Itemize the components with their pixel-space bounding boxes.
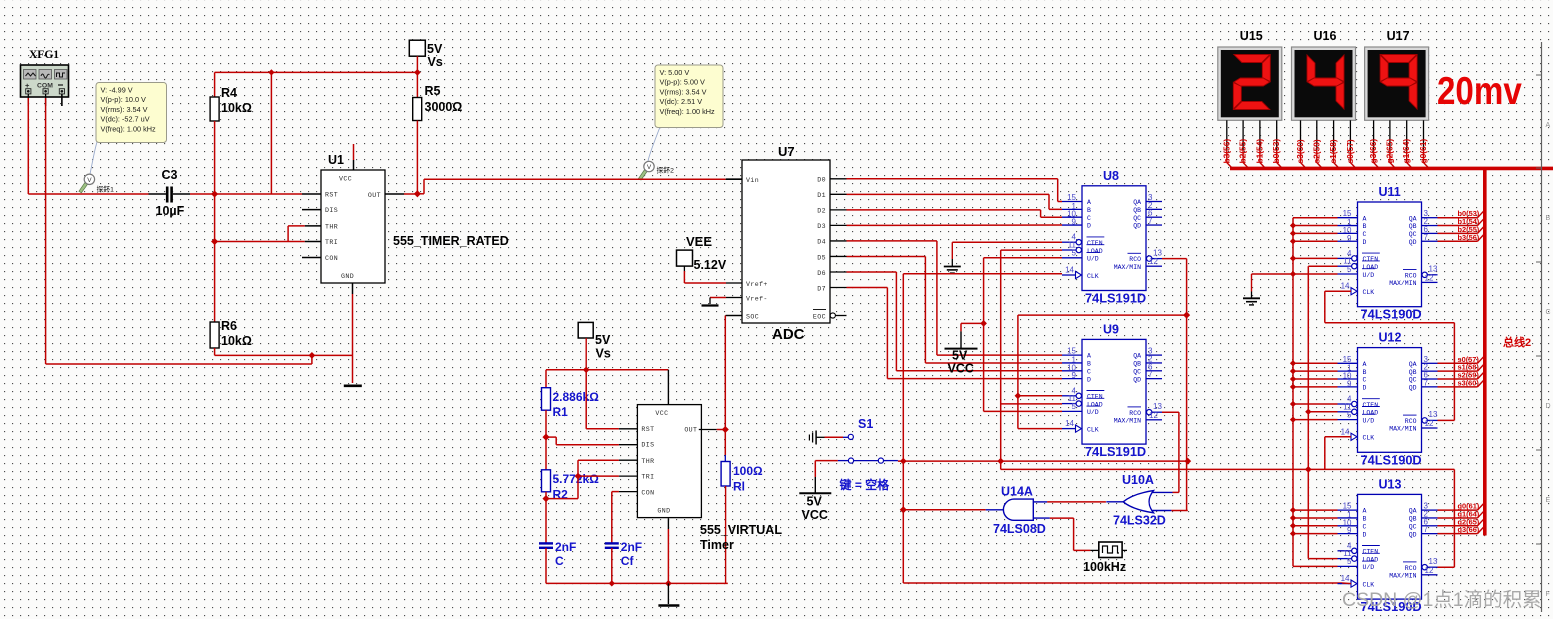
svg-text:C: C (1087, 215, 1091, 222)
svg-text:5V: 5V (952, 349, 968, 363)
svg-text:D7: D7 (817, 285, 826, 292)
svg-text:Vref+: Vref+ (746, 281, 768, 288)
svg-text:LOAD: LOAD (1363, 410, 1379, 417)
svg-text:B: B (1087, 207, 1091, 214)
svg-text:U16: U16 (1314, 29, 1337, 43)
svg-text:R4: R4 (221, 86, 237, 100)
svg-text:CSDN @1点1滴的积累: CSDN @1点1滴的积累 (1342, 589, 1542, 611)
svg-text:CLK: CLK (1087, 273, 1099, 280)
svg-text:MAX/MIN: MAX/MIN (1114, 417, 1141, 424)
svg-text:C3: C3 (162, 168, 178, 182)
svg-text:总线2: 总线2 (1503, 335, 1531, 349)
svg-text:RCO: RCO (1129, 410, 1141, 417)
svg-text:74LS32D: 74LS32D (1113, 514, 1166, 528)
svg-text:15: 15 (1343, 502, 1352, 511)
svg-text:VCC: VCC (655, 410, 668, 417)
svg-text:D1: D1 (817, 192, 826, 199)
svg-text:s2(59): s2(59) (1311, 139, 1321, 163)
svg-text:555_TIMER_RATED: 555_TIMER_RATED (393, 234, 509, 248)
svg-text:b1(54): b1(54) (1254, 139, 1264, 164)
svg-text:7: 7 (1148, 370, 1153, 379)
svg-text:10µF: 10µF (156, 204, 185, 218)
svg-text:5.12V: 5.12V (694, 258, 727, 272)
svg-text:R1: R1 (553, 405, 569, 419)
svg-text:CLK: CLK (1087, 426, 1099, 433)
svg-text:5: 5 (1347, 410, 1352, 419)
svg-text:7: 7 (1424, 378, 1429, 387)
svg-text:QA: QA (1133, 199, 1141, 206)
svg-text:MAX/MIN: MAX/MIN (1114, 264, 1141, 271)
svg-text:EOC: EOC (813, 314, 826, 321)
svg-text:U14A: U14A (1001, 485, 1033, 499)
svg-text:5.772kΩ: 5.772kΩ (553, 472, 600, 486)
svg-text:QA: QA (1409, 361, 1417, 368)
svg-text:100Ω: 100Ω (733, 464, 763, 478)
svg-text:A: A (1087, 199, 1091, 206)
svg-text:b0(53): b0(53) (1271, 139, 1281, 164)
svg-text:s1(58): s1(58) (1328, 139, 1338, 163)
svg-text:探鈈1: 探鈈1 (97, 185, 115, 194)
svg-text:A: A (1363, 361, 1367, 368)
svg-text:Rl: Rl (733, 480, 745, 494)
svg-text:74LS191D: 74LS191D (1085, 444, 1146, 459)
svg-text:14: 14 (1341, 427, 1350, 436)
svg-text:74LS191D: 74LS191D (1085, 291, 1146, 306)
svg-text:D: D (1087, 376, 1091, 383)
svg-text:10kΩ: 10kΩ (221, 334, 252, 348)
svg-text:13: 13 (1429, 410, 1438, 419)
svg-text:5V: 5V (595, 333, 611, 347)
svg-text:V: V (647, 164, 652, 171)
svg-text:GND: GND (657, 508, 670, 515)
svg-text:5: 5 (1072, 402, 1077, 411)
svg-text:V(rms): 3.54 V: V(rms): 3.54 V (101, 105, 148, 114)
svg-text:U8: U8 (1103, 169, 1119, 183)
svg-text:g1(64): g1(64) (1401, 139, 1411, 164)
svg-text:13: 13 (1153, 402, 1162, 411)
svg-text:15: 15 (1067, 193, 1076, 202)
svg-text:D: D (1363, 531, 1367, 538)
svg-text:D0: D0 (817, 177, 826, 184)
svg-text:CLK: CLK (1363, 581, 1375, 588)
svg-text:QC: QC (1409, 523, 1417, 530)
svg-text:9: 9 (1347, 234, 1352, 243)
svg-text:MAX/MIN: MAX/MIN (1389, 280, 1416, 287)
svg-text:U7: U7 (778, 144, 795, 159)
svg-text:13: 13 (1153, 248, 1162, 257)
svg-text:QD: QD (1409, 531, 1417, 538)
svg-text:QB: QB (1133, 207, 1141, 214)
svg-text:QB: QB (1133, 361, 1141, 368)
svg-text:7: 7 (1424, 525, 1429, 534)
svg-text:Vref-: Vref- (746, 296, 768, 303)
svg-text:QC: QC (1133, 368, 1141, 375)
svg-text:XFG1: XFG1 (29, 49, 59, 61)
svg-text:U/D: U/D (1087, 256, 1099, 263)
svg-text:Vs: Vs (428, 55, 443, 69)
svg-text:2.886kΩ: 2.886kΩ (553, 390, 600, 404)
svg-text:555_VIRTUAL: 555_VIRTUAL (700, 523, 782, 537)
svg-text:QC: QC (1133, 215, 1141, 222)
svg-text:U/D: U/D (1363, 564, 1375, 571)
svg-text:VCC: VCC (339, 176, 352, 183)
svg-text:QA: QA (1409, 508, 1417, 515)
svg-text:14: 14 (1341, 574, 1350, 583)
svg-text:Vin: Vin (746, 177, 759, 184)
svg-text:CTEN: CTEN (1087, 240, 1103, 247)
svg-text:74LS190D: 74LS190D (1361, 307, 1422, 322)
svg-text:QD: QD (1133, 223, 1141, 230)
svg-text:D3: D3 (817, 223, 826, 230)
svg-text:QC: QC (1409, 231, 1417, 238)
svg-text:g0(61): g0(61) (1418, 139, 1428, 164)
svg-text:QD: QD (1409, 384, 1417, 391)
svg-text:S1: S1 (858, 417, 873, 431)
svg-text:MAX/MIN: MAX/MIN (1389, 426, 1416, 433)
svg-text:R6: R6 (221, 319, 237, 333)
svg-text:CTEN: CTEN (1363, 549, 1379, 556)
svg-text:V(dc): -52.7 uV: V(dc): -52.7 uV (101, 115, 150, 124)
svg-text:U10A: U10A (1122, 473, 1154, 487)
svg-text:RCO: RCO (1405, 565, 1417, 572)
svg-text:探鈈2: 探鈈2 (657, 166, 675, 175)
svg-text:VEE: VEE (686, 234, 712, 249)
svg-text:R5: R5 (425, 84, 441, 98)
svg-text:B: B (1363, 516, 1367, 523)
svg-text:9: 9 (1072, 371, 1077, 380)
svg-text:b3(56): b3(56) (1221, 139, 1231, 164)
svg-text:C: C (1363, 231, 1367, 238)
svg-text:U/D: U/D (1087, 409, 1099, 416)
svg-text:s3(60): s3(60) (1458, 378, 1480, 387)
svg-text:C: C (555, 554, 564, 568)
svg-text:MAX/MIN: MAX/MIN (1389, 572, 1416, 579)
svg-text:DIS: DIS (325, 207, 338, 214)
svg-text:U12: U12 (1379, 331, 1402, 345)
svg-text:CLK: CLK (1363, 435, 1375, 442)
svg-text:DIS: DIS (641, 442, 654, 449)
svg-text:15: 15 (1067, 347, 1076, 356)
svg-text:D4: D4 (817, 239, 826, 246)
svg-text:RST: RST (325, 192, 338, 199)
svg-text:QB: QB (1409, 369, 1417, 376)
svg-text:键 = 空格: 键 = 空格 (839, 477, 891, 492)
svg-text:12: 12 (1425, 566, 1434, 575)
svg-text:U15: U15 (1240, 29, 1263, 43)
svg-text:RCO: RCO (1405, 272, 1417, 279)
svg-text:D: D (1546, 403, 1551, 410)
svg-text:14: 14 (1065, 419, 1074, 428)
svg-text:THR: THR (325, 223, 338, 230)
svg-text:Timer: Timer (700, 538, 734, 552)
svg-text:U9: U9 (1103, 322, 1119, 336)
svg-text:b2(55): b2(55) (1238, 139, 1248, 164)
svg-text:U17: U17 (1387, 29, 1410, 43)
svg-text:QA: QA (1133, 353, 1141, 360)
svg-text:12: 12 (1425, 419, 1434, 428)
svg-text:C: C (1087, 368, 1091, 375)
svg-text:U1: U1 (328, 153, 344, 167)
svg-text:V(rms): 3.54 V: V(rms): 3.54 V (660, 87, 707, 96)
svg-text:R2: R2 (553, 488, 569, 502)
svg-text:SOC: SOC (746, 314, 759, 321)
svg-text:TRI: TRI (325, 239, 338, 246)
svg-text:QD: QD (1133, 376, 1141, 383)
svg-text:b3(56): b3(56) (1458, 233, 1480, 242)
svg-text:A: A (1546, 122, 1551, 129)
svg-text:Vs: Vs (596, 347, 611, 361)
svg-text:U/D: U/D (1363, 417, 1375, 424)
svg-text:s3(60): s3(60) (1295, 139, 1305, 163)
svg-text:B: B (1546, 215, 1551, 222)
svg-text:12: 12 (1425, 273, 1434, 282)
svg-text:TRI: TRI (641, 474, 654, 481)
svg-text:A: A (1363, 508, 1367, 515)
svg-text:12: 12 (1149, 411, 1158, 420)
svg-text:A: A (1363, 215, 1367, 222)
svg-text:9: 9 (1072, 218, 1077, 227)
svg-text:13: 13 (1429, 265, 1438, 274)
svg-text:5: 5 (1072, 249, 1077, 258)
svg-text:74LS190D: 74LS190D (1361, 452, 1422, 467)
svg-text:74LS08D: 74LS08D (993, 522, 1046, 536)
svg-text:OUT: OUT (684, 427, 697, 434)
svg-text:F: F (1546, 591, 1550, 598)
svg-text:ADC: ADC (772, 326, 805, 343)
svg-text:U13: U13 (1379, 477, 1402, 491)
svg-text:C: C (1363, 377, 1367, 384)
svg-text:g3(66): g3(66) (1458, 525, 1480, 534)
svg-text:D: D (1087, 223, 1091, 230)
svg-text:s0(57): s0(57) (1345, 139, 1355, 163)
svg-text:100kHz: 100kHz (1083, 560, 1126, 574)
svg-text:CON: CON (325, 255, 338, 262)
svg-text:B: B (1363, 369, 1367, 376)
svg-text:g2(65): g2(65) (1384, 139, 1394, 164)
svg-text:5: 5 (1347, 265, 1352, 274)
svg-text:VCC: VCC (948, 362, 974, 376)
svg-text:7: 7 (1148, 217, 1153, 226)
svg-text:QD: QD (1409, 239, 1417, 246)
svg-text:9: 9 (1347, 526, 1352, 535)
svg-text:QC: QC (1409, 377, 1417, 384)
svg-text:RCO: RCO (1129, 256, 1141, 263)
svg-text:RCO: RCO (1405, 418, 1417, 425)
svg-text:CTEN: CTEN (1087, 394, 1103, 401)
svg-text:B: B (1363, 223, 1367, 230)
svg-text:V: -4.99 V: V: -4.99 V (101, 86, 133, 95)
svg-text:7: 7 (1424, 233, 1429, 242)
svg-text:15: 15 (1343, 355, 1352, 364)
svg-text:D: D (1363, 384, 1367, 391)
svg-text:V: V (87, 177, 92, 184)
svg-text:3000Ω: 3000Ω (425, 100, 463, 114)
svg-text:14: 14 (1341, 282, 1350, 291)
svg-text:15: 15 (1343, 209, 1352, 218)
svg-text:D6: D6 (817, 270, 826, 277)
svg-text:5V: 5V (807, 495, 823, 509)
svg-text:LOAD: LOAD (1363, 264, 1379, 271)
svg-text:CTEN: CTEN (1363, 256, 1379, 263)
svg-text:14: 14 (1065, 266, 1074, 275)
svg-text:A: A (1087, 353, 1091, 360)
svg-text:CON: CON (641, 490, 654, 497)
svg-text:U11: U11 (1379, 185, 1401, 199)
svg-text:g3(66): g3(66) (1368, 139, 1378, 164)
svg-text:5V: 5V (427, 42, 443, 56)
svg-text:VCC: VCC (802, 508, 828, 522)
svg-text:C: C (1546, 309, 1551, 316)
svg-text:LOAD: LOAD (1087, 401, 1103, 408)
svg-text:5: 5 (1347, 557, 1352, 566)
svg-text:V(freq): 1.00 kHz: V(freq): 1.00 kHz (660, 107, 716, 116)
svg-text:D5: D5 (817, 254, 826, 261)
svg-text:E: E (1546, 497, 1551, 504)
svg-text:QB: QB (1409, 223, 1417, 230)
svg-text:D: D (1363, 239, 1367, 246)
svg-text:9: 9 (1347, 379, 1352, 388)
svg-text:D2: D2 (817, 208, 826, 215)
svg-text:V(p-p): 10.0 V: V(p-p): 10.0 V (101, 95, 147, 104)
svg-text:LOAD: LOAD (1087, 248, 1103, 255)
svg-text:GND: GND (341, 273, 354, 280)
svg-text:CTEN: CTEN (1363, 402, 1379, 409)
svg-text:B: B (1087, 361, 1091, 368)
svg-text:OUT: OUT (368, 192, 381, 199)
svg-text:2nF: 2nF (621, 540, 642, 554)
svg-text:13: 13 (1429, 557, 1438, 566)
svg-text:THR: THR (641, 458, 654, 465)
svg-text:QB: QB (1409, 516, 1417, 523)
svg-text:2nF: 2nF (555, 540, 576, 554)
svg-text:LOAD: LOAD (1363, 556, 1379, 563)
svg-text:V: 5.00 V: V: 5.00 V (660, 68, 690, 77)
svg-text:20mv: 20mv (1437, 68, 1522, 112)
svg-text:QA: QA (1409, 215, 1417, 222)
svg-text:Cf: Cf (621, 554, 635, 568)
svg-text:10kΩ: 10kΩ (221, 101, 252, 115)
svg-text:C: C (1363, 523, 1367, 530)
svg-text:V(p-p): 5.00 V: V(p-p): 5.00 V (660, 78, 706, 87)
svg-text:V(freq): 1.00 kHz: V(freq): 1.00 kHz (101, 124, 157, 133)
svg-text:12: 12 (1149, 257, 1158, 266)
svg-text:RST: RST (641, 426, 654, 433)
svg-text:U/D: U/D (1363, 272, 1375, 279)
svg-text:V(dc): 2.51 V: V(dc): 2.51 V (660, 97, 703, 106)
svg-text:CLK: CLK (1363, 289, 1375, 296)
